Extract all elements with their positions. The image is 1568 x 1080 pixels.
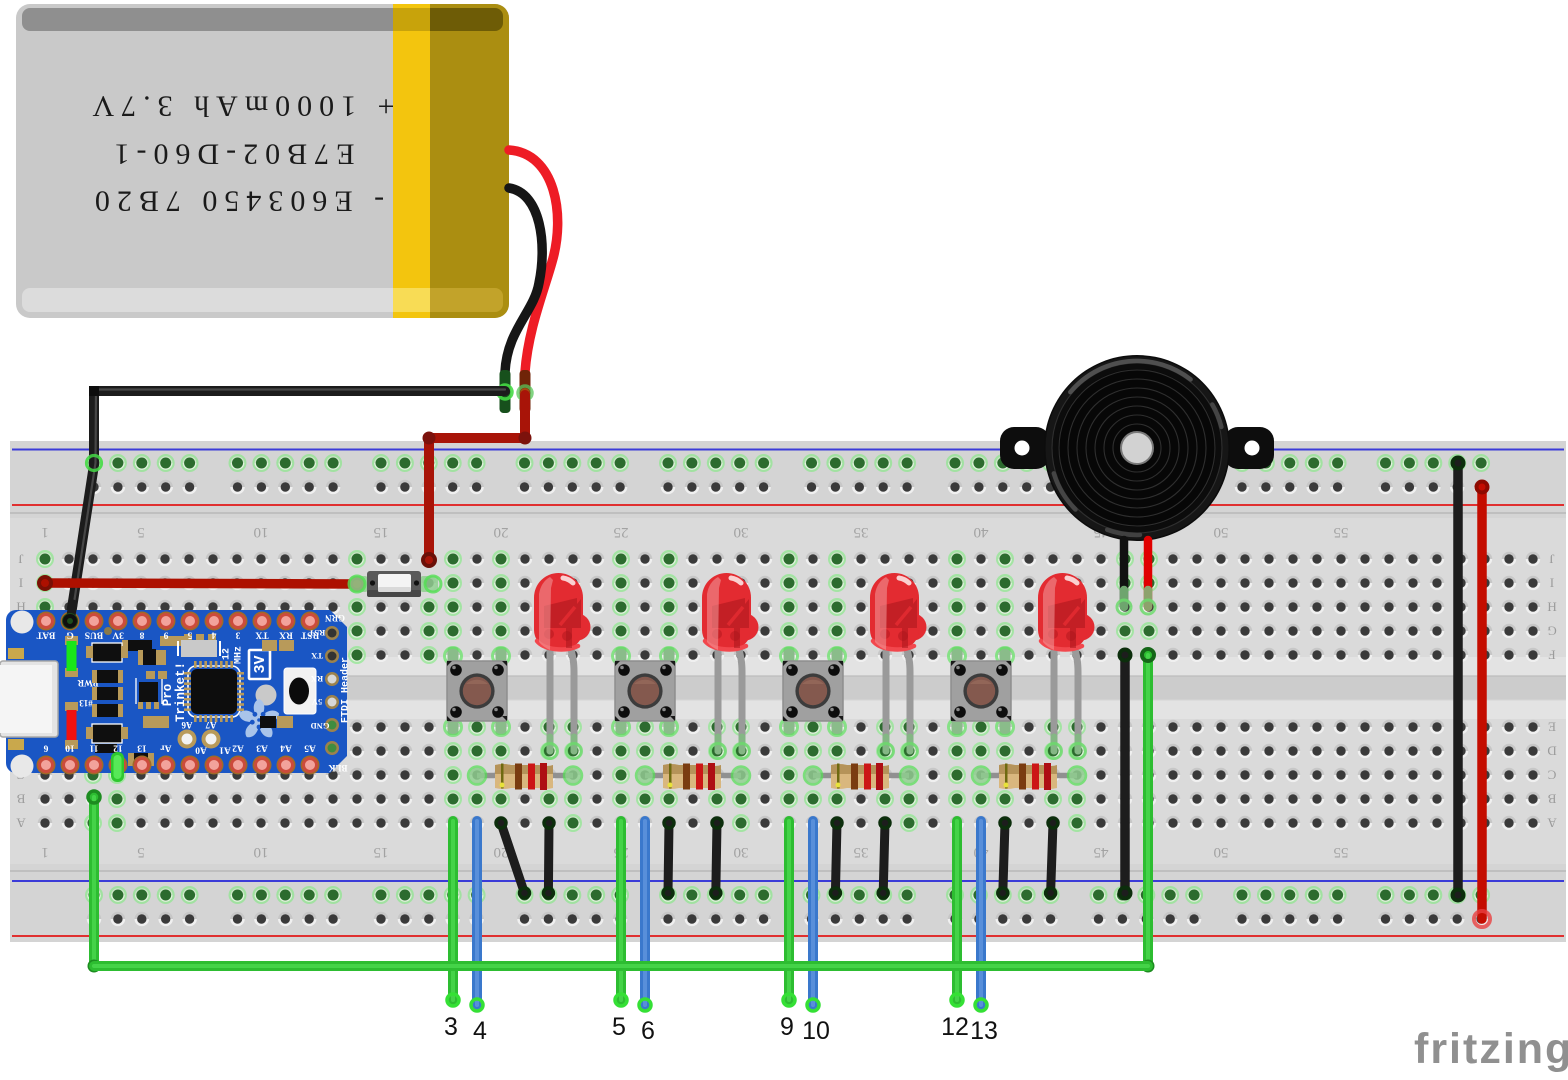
svg-text:3V: 3V: [112, 630, 124, 640]
svg-text:13: 13: [970, 1017, 998, 1045]
svg-text:BAT: BAT: [36, 630, 55, 640]
resistor R2 (220 ohm): [645, 773, 741, 779]
svg-text:I: I: [19, 576, 23, 591]
svg-text:6: 6: [641, 1017, 655, 1045]
wire: black jumper J6 to ground rail: [878, 818, 890, 898]
svg-text:12: 12: [113, 743, 123, 753]
svg-text:B: B: [1547, 792, 1556, 807]
svg-text:A5: A5: [304, 743, 316, 753]
svg-text:Pro: Pro: [161, 684, 175, 707]
svg-text:35: 35: [854, 524, 869, 540]
wire: black jumper J4 to ground rail: [711, 818, 722, 898]
wire: green signal wire to pin 5: [615, 821, 627, 1006]
svg-text:G: G: [1547, 624, 1556, 639]
right-end rail link wires: [1453, 463, 1463, 895]
svg-text:25: 25: [614, 524, 629, 540]
wire: green signal wire to pin 9: [783, 821, 795, 1006]
svg-text:J: J: [18, 552, 23, 567]
wire: blue signal wire to pin 10: [807, 821, 819, 1011]
svg-text:FTDI Header: FTDI Header: [340, 657, 352, 723]
svg-text:fritzing: fritzing: [1414, 1025, 1568, 1073]
svg-text:3V: 3V: [252, 655, 269, 673]
svg-text:9: 9: [163, 630, 168, 640]
svg-text:5: 5: [137, 524, 145, 540]
center channel: [10, 657, 1566, 676]
svg-text:I: I: [1550, 576, 1554, 591]
rail colour lines: [12, 449, 1564, 451]
breadboard body: [10, 441, 1566, 942]
svg-text:55: 55: [1334, 524, 1349, 540]
svg-text:12: 12: [941, 1013, 969, 1041]
svg-text:5: 5: [137, 844, 145, 860]
battery B1 (LiPo 1000mAh, rotated 180): [16, 4, 509, 318]
svg-text:55: 55: [1334, 844, 1349, 860]
svg-text:13: 13: [137, 743, 147, 753]
svg-text:+ 1000mAh 3.7V: + 1000mAh 3.7V: [85, 90, 394, 123]
svg-text:A6: A6: [181, 720, 192, 730]
svg-text:30: 30: [734, 524, 749, 540]
svg-text:8: 8: [139, 630, 144, 640]
svg-text:A2: A2: [232, 743, 244, 753]
wire: battery + to breadboard J17: [429, 395, 525, 560]
svg-text:RST: RST: [300, 630, 319, 640]
pushbutton SW3: [784, 647, 795, 664]
svg-text:35: 35: [854, 844, 869, 860]
svg-text:A0: A0: [195, 745, 207, 755]
svg-text:RX: RX: [279, 630, 293, 640]
svg-text:F: F: [1548, 648, 1555, 663]
svg-text:4: 4: [473, 1017, 487, 1045]
svg-text:45: 45: [1094, 844, 1109, 860]
svg-text:10: 10: [65, 743, 75, 753]
wire: I1 to switch pin I14: [45, 583, 357, 584]
svg-text:J: J: [1549, 552, 1554, 567]
svg-text:C: C: [1548, 768, 1557, 783]
wire: blue signal wire to pin 4: [471, 821, 483, 1011]
svg-text:B: B: [16, 792, 25, 807]
wire: black jumper J2 to ground rail: [543, 818, 554, 898]
power rail holes: [82, 451, 1494, 475]
svg-text:3: 3: [444, 1013, 458, 1041]
svg-text:BUS: BUS: [85, 630, 103, 640]
wire: black jumper J8 to ground rail: [1046, 818, 1058, 898]
battery red wire: [509, 150, 558, 372]
resistor R1 (220 ohm): [477, 773, 573, 779]
wire: black jumper J5 to ground rail: [830, 818, 842, 898]
svg-text:1: 1: [41, 524, 49, 540]
svg-text:5V: 5V: [311, 697, 322, 707]
svg-text:BLK: BLK: [328, 763, 347, 773]
svg-text:D: D: [1547, 744, 1556, 759]
long black wire: buzzer column F46 to bottom rail: [1120, 655, 1130, 893]
wire: green signal wire to pin 3: [447, 821, 459, 1006]
LED1 (red 5mm): [547, 648, 554, 751]
svg-text:- E603450 7B20: - E603450 7B20: [88, 185, 384, 218]
svg-text:5: 5: [187, 630, 192, 640]
wire: black jumper J7 to ground rail: [998, 818, 1010, 898]
svg-text:GND: GND: [311, 721, 330, 731]
green bus wire (Trinket 12 to buzzer column): [94, 655, 1148, 966]
wire: black jumper J3 to ground rail: [663, 818, 674, 898]
svg-text:15: 15: [374, 844, 389, 860]
svg-text:50: 50: [1214, 844, 1229, 860]
svg-text:Trinket!: Trinket!: [174, 662, 188, 722]
svg-text:RX: RX: [310, 674, 323, 684]
svg-text:H: H: [1547, 600, 1556, 615]
LED3 (red 5mm): [883, 648, 890, 751]
svg-text:15: 15: [374, 524, 389, 540]
svg-text:9: 9: [780, 1013, 794, 1041]
svg-text:12: 12: [222, 648, 233, 660]
svg-text:A1: A1: [219, 745, 231, 755]
svg-text:20: 20: [494, 524, 509, 540]
pushbutton SW2: [616, 647, 627, 664]
slide switch S1: [350, 576, 368, 592]
svg-text:3: 3: [235, 630, 240, 640]
svg-text:11: 11: [89, 743, 98, 753]
resistor R3 (220 ohm): [813, 773, 909, 779]
pushbutton SW4: [952, 647, 963, 664]
buzzer leads: [1120, 540, 1129, 607]
wire: green signal wire to pin 12: [951, 821, 963, 1006]
svg-text:5: 5: [612, 1013, 626, 1041]
svg-text:#13: #13: [79, 698, 93, 708]
wire: blue signal wire to pin 6: [639, 821, 651, 1011]
resistor R4 (220 ohm): [981, 773, 1077, 779]
svg-text:50: 50: [1214, 524, 1229, 540]
pushbutton SW1: [448, 647, 459, 664]
LED2 (red 5mm): [715, 648, 722, 751]
svg-text:10: 10: [802, 1017, 830, 1045]
main grid holes: [33, 547, 1545, 667]
svg-text:A4: A4: [280, 743, 292, 753]
svg-text:10: 10: [254, 844, 269, 860]
battery wire terminals / junction: [500, 370, 511, 413]
svg-text:30: 30: [734, 844, 749, 860]
LED4 (red 5mm): [1051, 648, 1058, 751]
svg-text:A: A: [16, 816, 26, 831]
svg-text:TX: TX: [255, 630, 268, 640]
svg-text:Ar: Ar: [160, 743, 172, 753]
wire: black jumper J1 to ground rail: [496, 818, 530, 898]
svg-text:E7B02-D60-1: E7B02-D60-1: [108, 138, 355, 171]
svg-text:1: 1: [41, 844, 49, 860]
svg-text:40: 40: [974, 524, 989, 540]
svg-text:A: A: [1547, 816, 1557, 831]
svg-text:A7: A7: [205, 720, 216, 730]
piezo buzzer: [1000, 355, 1274, 541]
svg-text:E: E: [1548, 720, 1556, 735]
svg-text:10: 10: [254, 524, 269, 540]
svg-text:A3: A3: [256, 743, 268, 753]
wire: battery GND to Trinket G pin: [70, 386, 505, 621]
connected (green) holes: [36, 550, 54, 568]
Adafruit Pro Trinket U1 (rotated 180): [0, 604, 352, 782]
wire: blue signal wire to pin 13: [975, 821, 987, 1011]
battery black wire: [505, 188, 542, 372]
svg-text:GRN: GRN: [325, 613, 346, 623]
svg-text:MHz: MHz: [234, 646, 245, 664]
svg-text:G: G: [66, 630, 74, 640]
svg-text:TX: TX: [310, 651, 323, 661]
svg-text:4: 4: [211, 630, 216, 640]
svg-text:6: 6: [43, 743, 48, 753]
